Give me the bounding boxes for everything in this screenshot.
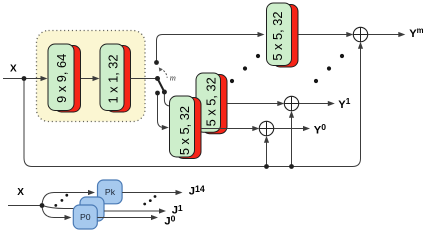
arrowhead into adder Y1 (277, 101, 284, 106)
conv box1 9x9,64 (green) (48, 44, 74, 111)
wire: bottom input (8, 205, 42, 207)
wire box2 to switch pivot (131, 78, 158, 80)
ellipsis dots between middle and top conv boxes (230, 79, 234, 83)
wire P0 to J0 (97, 217, 152, 219)
wire lower box to adder Y0 (201, 128, 254, 130)
svg-text:m: m (170, 73, 176, 83)
svg-text:X: X (10, 64, 17, 75)
wire box1 to box2 (81, 78, 94, 80)
conv box1 shadow (red) (55, 46, 81, 113)
switch arm contact dot (162, 90, 167, 95)
svg-text:5 x 5, 32: 5 x 5, 32 (204, 77, 219, 126)
conv top box 5x5,32 (green) (267, 3, 292, 66)
conv box2 1x1,32 (green) (100, 44, 124, 111)
svg-text:9 x 9, 64: 9 x 9, 64 (54, 54, 69, 103)
adder Y1 (284, 96, 298, 110)
arrowhead to J1 (159, 208, 166, 213)
svg-text:5 x 5, 32: 5 x 5, 32 (270, 12, 285, 61)
box P0 (73, 205, 97, 229)
conv box2 shadow (red) (107, 46, 131, 113)
dashed rotation arc of switch (160, 69, 167, 77)
dashed container (yellow) (37, 31, 146, 122)
arrowhead into adder Ym bottom (358, 42, 363, 49)
wire branch to middle P box (42, 206, 82, 209)
arrowhead to J0 (151, 215, 158, 220)
svg-text:X: X (17, 187, 24, 198)
wire branch to Pk (42, 193, 90, 206)
svg-text:5 x 5, 32: 5 x 5, 32 (177, 106, 192, 155)
adder Ym (353, 27, 367, 41)
junction dot on bottom wire (Y0) (264, 164, 269, 169)
wire arm contact into lower box (164, 92, 171, 106)
ellipsis dots between J14 and J1 (143, 203, 146, 206)
arrowhead into P0 (65, 215, 72, 220)
wire adder Y0 to output (274, 128, 305, 130)
arrowhead into adder Ym (346, 32, 353, 37)
wire Pk to J14 (122, 192, 177, 194)
switch pivot dot (155, 76, 160, 81)
box Pk (98, 180, 123, 204)
ellipsis dots near bottom junction (54, 204, 57, 207)
svg-text:1 x 1, 32: 1 x 1, 32 (106, 54, 121, 103)
conv middle box 5x5,32 (green) (196, 73, 221, 132)
arrowhead to Y0 label (303, 126, 310, 131)
arrowhead into adder Y0 (252, 126, 259, 131)
wire bottom feedback up into adder Y0 (266, 141, 268, 167)
conv middle box shadow (red) (203, 75, 228, 134)
wire switch top contact up to top conv box (157, 35, 259, 62)
wire: feedback path from X junction down, along bottom, up to adder Ym (24, 47, 361, 167)
arrowhead into box1 (41, 76, 48, 81)
switch left contact dot (155, 91, 160, 96)
wire middle P to J1 (104, 210, 161, 212)
wire middle box to adder Y1 (227, 103, 279, 105)
arrowhead into Pk (88, 190, 95, 195)
adder Y0 (259, 121, 273, 135)
conv lower box 5x5,32 (green) (170, 96, 195, 157)
arrowhead to Y1 label (328, 101, 335, 106)
box P middle (unlabeled) (80, 197, 104, 221)
wire adder Ym to output (368, 34, 400, 36)
junction dot bottom input (40, 203, 45, 208)
wire left contact down into lower box input (158, 93, 165, 128)
junction dot on bottom wire (Y1) (289, 164, 294, 169)
junction dot at X branch (22, 76, 27, 81)
switch arm (158, 79, 165, 93)
conv lower box shadow (red) (176, 98, 201, 159)
arrowhead to Ym label (398, 32, 405, 37)
arrowhead to J14 (176, 190, 183, 195)
wire top box to adder Ym (298, 34, 348, 36)
switch top contact dot (154, 60, 159, 65)
wire bottom feedback up into adder Y1 (291, 116, 293, 167)
arrowhead into top conv box (258, 32, 265, 37)
wire branch to P0 (42, 206, 66, 218)
ellipsis dots between adders Y1 and Ym (314, 79, 318, 83)
arrowhead into lower box (162, 125, 169, 130)
wire: input X horizontal (3, 78, 42, 80)
svg-text:P0: P0 (80, 212, 91, 222)
wire adder Y1 to output (299, 103, 330, 105)
svg-text:Pk: Pk (105, 187, 116, 197)
arrowhead into box2 (93, 76, 100, 81)
conv top box shadow (red) (273, 5, 298, 68)
arrowhead of rotation arc (159, 67, 163, 71)
